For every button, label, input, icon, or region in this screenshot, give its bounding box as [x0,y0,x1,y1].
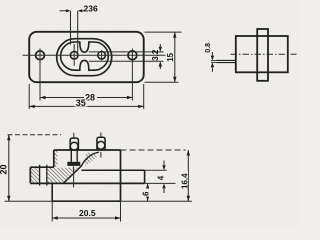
ear screw hole lines [39,165,41,186]
internal shelf line [82,169,145,171]
dim 2.36 extension lines [70,11,72,45]
pin hole right vertical centerline [101,50,103,61]
dim 6 [147,183,149,201]
dim 20 top extension (dashed) [8,134,62,136]
body top extension (dashed) [121,149,186,151]
dim 3.2 [159,44,161,50]
fillet curve [63,152,99,183]
left terminal tick above [73,133,75,138]
left terminal [70,138,78,150]
dim 0.8 [211,52,213,56]
left terminal centerline below [73,167,75,188]
mounting hole right [128,51,137,60]
tab right edge [144,170,146,183]
skirt bottom [52,200,120,202]
dim 4 [163,161,165,166]
ear hatch left part [31,168,39,183]
left wall hatch [54,151,57,167]
skirt left edge [51,183,53,201]
dim 15 [174,32,176,82]
side flange band [257,29,268,81]
shelf extension [145,169,167,171]
pin hole right [98,52,106,60]
dim text 20 (rotated) [0,161,8,175]
dim 2.36 leader right + arrow [78,9,83,12]
dim 20.5 [52,217,120,219]
dim text 15 (rotated) [166,53,174,64]
dim 35 extension lines [28,84,30,109]
dim 28 line [40,97,132,99]
pin dim extension lines [211,60,217,62]
left terminal base bar [67,162,80,166]
right terminal tick below [100,152,102,158]
right terminal [97,137,105,150]
dim text 28 [84,93,97,102]
mounting hole left [36,51,45,60]
side body [236,36,288,72]
plate extension lines right [145,31,182,33]
dim 20 [8,135,10,201]
dim text 16.4 (rotated) [180,171,188,189]
right terminal tick above [100,133,102,137]
plate outline [29,32,144,82]
side centerline [231,53,297,55]
pin (two lines) [217,59,236,61]
main hatched section [47,168,81,183]
pin hole left [70,51,78,59]
bottom extension left (to dim 20) [5,200,53,202]
dim 16.4 [187,150,189,201]
mounting ear left cap [29,167,31,183]
horizontal centerline [23,54,166,56]
mounting ear top [30,166,54,168]
dim text 35 [75,99,88,106]
recess outer stadium [57,39,112,76]
body bottom extension [145,182,176,184]
hatch patch right of curve [85,153,97,166]
dim 2.36 leader left [60,10,67,12]
notch extension lines for dim 3.2 [89,51,164,53]
dim text 6 (rotated) [143,189,150,197]
recess inner outline with notches [61,42,109,70]
body top edge [54,149,121,151]
body right edge [120,150,122,201]
pin hole left vertical centerline [73,44,75,66]
body bottom edge [30,182,144,184]
dim 20.5 extensions [51,201,53,221]
bottom extension right [121,200,193,202]
dim 28 extension lines [39,49,41,101]
body left wall [53,150,55,167]
dim 35 line [29,105,144,107]
